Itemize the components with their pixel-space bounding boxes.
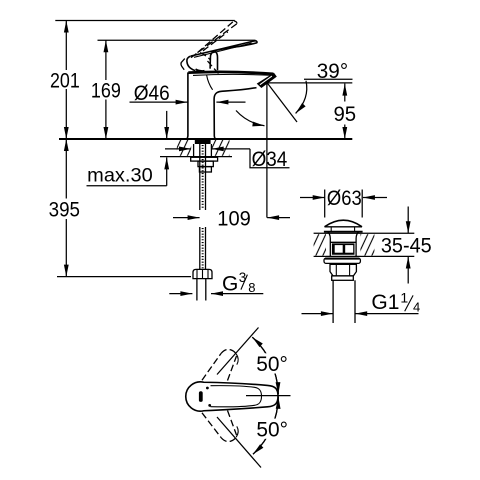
svg-text:395: 395 <box>49 199 80 222</box>
solid arc fragment at lower dashed tip <box>236 426 238 437</box>
handle inner outline <box>211 386 262 407</box>
drain washer below deck <box>324 258 360 263</box>
svg-text:109: 109 <box>217 207 251 230</box>
handle dots <box>206 387 209 390</box>
threaded rod <box>199 144 201 210</box>
svg-text:G: G <box>222 273 238 296</box>
drain cap <box>324 220 363 231</box>
svg-text:169: 169 <box>91 79 121 102</box>
drain collar <box>332 276 354 280</box>
dimension Ø63 <box>300 187 387 218</box>
svg-text:95: 95 <box>333 103 356 126</box>
lever front hook <box>187 56 195 70</box>
upper 50° ray <box>217 328 259 375</box>
dashed handle rotated up <box>202 349 237 380</box>
faucet body <box>187 72 277 139</box>
washer under deck <box>191 157 218 161</box>
svg-text:G1: G1 <box>371 291 399 314</box>
svg-text:1: 1 <box>400 290 408 306</box>
handle slot <box>199 391 203 402</box>
svg-text:Ø63: Ø63 <box>327 187 362 210</box>
dimension 169 <box>91 40 121 139</box>
svg-text:50°: 50° <box>256 418 288 441</box>
svg-text:8: 8 <box>248 280 255 295</box>
solid arc fragment at upper dashed tip <box>236 354 238 365</box>
svg-text:50°: 50° <box>256 353 288 376</box>
lever blade inner line <box>194 43 252 57</box>
39 degree arc right <box>296 81 307 114</box>
dimension 35-45 <box>381 207 432 284</box>
39 degree label underline <box>304 78 353 80</box>
svg-text:201: 201 <box>50 69 80 92</box>
label 50° lower <box>254 418 290 441</box>
countertop section at faucet (hatched) <box>160 140 232 157</box>
svg-text:max.30: max.30 <box>87 165 153 187</box>
bottom reference line (hose end) <box>57 276 191 278</box>
svg-text:3: 3 <box>239 270 247 285</box>
lever handle raised position (dashed) <box>191 21 237 74</box>
center reference line <box>246 395 291 397</box>
dimension Ø46 <box>130 82 246 105</box>
hose end tube <box>196 279 198 301</box>
dimension G 3/8 <box>169 270 263 296</box>
dimension 395 <box>49 139 80 277</box>
extension line top (201 reference) <box>55 20 235 22</box>
dimension 201 <box>50 21 80 140</box>
spout interior curve <box>207 75 213 90</box>
handle body outline (knob circle + grip union) <box>186 382 278 411</box>
svg-text:Ø46: Ø46 <box>134 82 170 105</box>
39 degree construction: horizontal line from spout tip <box>267 82 352 84</box>
39 degree arc left <box>236 111 265 126</box>
faucet shank below deck <box>191 140 218 301</box>
drain tube <box>332 280 334 323</box>
vertical construction line from spout tip <box>266 83 268 217</box>
upper 50° arc <box>252 337 278 394</box>
dimension G 1 1/4 <box>302 290 421 315</box>
aerator face at spout tip <box>257 73 276 87</box>
lever handle (solid, lowered) <box>181 41 257 71</box>
39 degree slanted ray <box>267 83 297 122</box>
drain body through deck <box>327 232 359 256</box>
spout top edge <box>188 72 273 74</box>
sink deck section at drain (hatched) <box>314 233 415 256</box>
svg-text:Ø34: Ø34 <box>252 148 288 171</box>
deck / mounting surface line <box>59 138 352 140</box>
svg-text:39°: 39° <box>317 60 348 83</box>
extension line 169 reference <box>98 39 256 41</box>
hose connector nut <box>193 269 212 278</box>
dimension Ø34 <box>165 148 290 171</box>
dimension 109 <box>173 207 290 230</box>
dimension max.30 <box>87 111 167 187</box>
dashed handle rotated down <box>202 411 237 442</box>
label 50° upper <box>254 353 290 376</box>
lower 50° arc <box>253 397 278 454</box>
svg-text:35-45: 35-45 <box>381 235 432 258</box>
svg-text:4: 4 <box>413 300 420 315</box>
lower 50° ray <box>217 417 261 468</box>
drain locknut <box>330 264 356 276</box>
step rings <box>198 161 213 167</box>
dimension 95 <box>333 84 356 139</box>
